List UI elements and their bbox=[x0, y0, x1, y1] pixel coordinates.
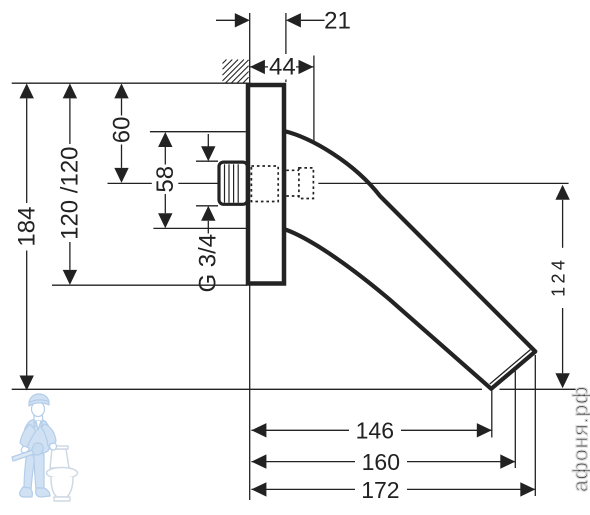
svg-text:184: 184 bbox=[14, 207, 41, 247]
svg-text:21: 21 bbox=[324, 8, 351, 35]
svg-text:124: 124 bbox=[548, 257, 568, 297]
svg-text:58: 58 bbox=[152, 166, 179, 193]
svg-text:44: 44 bbox=[269, 54, 296, 81]
svg-text:60: 60 bbox=[108, 117, 135, 144]
svg-text:G 3/4: G 3/4 bbox=[195, 234, 222, 293]
svg-text:172: 172 bbox=[361, 477, 399, 503]
svg-text:афоня.рф: афоня.рф bbox=[570, 386, 590, 492]
svg-text:146: 146 bbox=[356, 418, 394, 444]
svg-text:160: 160 bbox=[362, 449, 400, 475]
svg-text:120 /120: 120 /120 bbox=[57, 146, 84, 239]
